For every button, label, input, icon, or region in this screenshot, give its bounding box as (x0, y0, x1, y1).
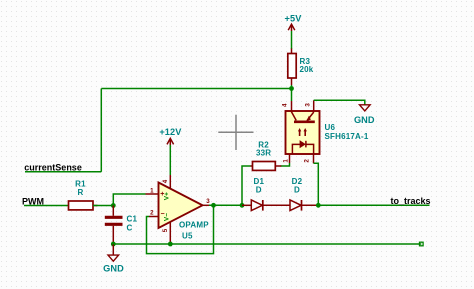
svg-text:5: 5 (162, 228, 169, 232)
svg-text:2: 2 (303, 159, 310, 163)
transistor inside U6 (291, 112, 315, 122)
svg-text:+5V: +5V (285, 14, 303, 24)
svg-text:currentSense: currentSense (24, 162, 82, 172)
op-amp U5 body (159, 183, 203, 229)
svg-text:V+: V+ (164, 192, 171, 200)
wire feedback loop (147, 205, 214, 253)
pin 4 U6 (291, 101, 293, 111)
wire node to U6 pin4 (291, 89, 293, 102)
svg-text:to_tracks: to_tracks (391, 196, 431, 206)
svg-text:U5: U5 (182, 232, 193, 241)
svg-text:C1: C1 (127, 215, 138, 224)
power +12V (167, 138, 174, 145)
svg-text:R: R (78, 188, 84, 197)
svg-text:3: 3 (206, 198, 210, 205)
svg-text:1: 1 (150, 187, 154, 194)
wire C1 node to GND (112, 244, 114, 255)
pin 3 U6 (313, 100, 315, 111)
svg-text:C: C (127, 224, 133, 233)
cursor crosshair (218, 115, 253, 150)
wire U6 pin1 to R2 (281, 163, 290, 166)
pin 3 opamp output (203, 204, 210, 206)
pin 1 opamp (146, 193, 159, 195)
wire R2 left down to diode row (242, 166, 251, 205)
power +5V (288, 24, 295, 31)
svg-text:SFH617A-1: SFH617A-1 (325, 132, 369, 141)
svg-text:+12V: +12V (159, 127, 182, 137)
wire +12V to opamp pin4 (169, 145, 171, 175)
wire R3 to node (291, 78, 293, 85)
svg-text:4: 4 (281, 103, 288, 107)
wire U6 pin3 to GND (314, 100, 365, 104)
svg-text:GND: GND (354, 115, 375, 125)
wire node up to opamp pin1 (113, 194, 145, 206)
node junction output/feedback (211, 203, 216, 208)
svg-text:4: 4 (162, 179, 169, 183)
pin 1 U6 (289, 154, 291, 163)
node junction R3/U6 (289, 86, 294, 91)
svg-text:D: D (294, 185, 300, 194)
pin 4 opamp (169, 175, 171, 189)
wire D2 to tracks node (302, 204, 319, 206)
wire bottom rail (113, 243, 421, 245)
resistor R1 (69, 201, 94, 210)
svg-text:V−: V− (164, 213, 171, 221)
optocoupler U6 SFH617A-1 body (286, 111, 320, 154)
wire +5V to R3 (291, 31, 293, 49)
wire to_tracks (318, 204, 429, 206)
svg-text:GND: GND (103, 264, 124, 274)
svg-text:1: 1 (283, 159, 290, 163)
node junction D2/U6 pin2 (316, 203, 321, 208)
wire currentSense vertical (100, 89, 102, 172)
node unconnected end square (420, 242, 424, 246)
svg-text:3: 3 (305, 103, 312, 107)
pin 2 opamp (149, 216, 159, 218)
node junction R1/C1 (111, 203, 116, 208)
pin 5 opamp (169, 222, 171, 244)
wire opamp output (209, 204, 242, 206)
wire PWM to R1 (24, 205, 69, 207)
ground GND bottom (108, 255, 119, 261)
light arrows inside U6 (298, 128, 307, 136)
diode D2 (290, 200, 301, 211)
svg-text:20k: 20k (300, 65, 314, 74)
wire U6 pin2 down to tracks node (314, 163, 319, 205)
node junction R2/D1 (240, 203, 245, 208)
node junction C1/bottom rail (111, 242, 116, 247)
resistor R2 (275, 165, 281, 167)
svg-text:33R: 33R (256, 149, 271, 158)
wire currentSense label underline (25, 171, 101, 173)
wire D1 to D2 (263, 204, 290, 206)
LED diode inside U6 (292, 141, 313, 154)
svg-text:U6: U6 (325, 123, 336, 132)
diode D1 (242, 204, 251, 206)
svg-text:D: D (256, 185, 262, 194)
node junction pin5/bottom rail (168, 242, 173, 247)
wire R1 to node (93, 205, 113, 207)
wire currentSense horizontal top (101, 88, 291, 90)
resistor R3 (288, 54, 296, 79)
pin 2 U6 (313, 154, 315, 163)
svg-text:2: 2 (150, 209, 154, 216)
ground GND top right (360, 105, 371, 111)
svg-text:OPAMP: OPAMP (179, 221, 209, 230)
capacitor C1 (112, 206, 114, 216)
